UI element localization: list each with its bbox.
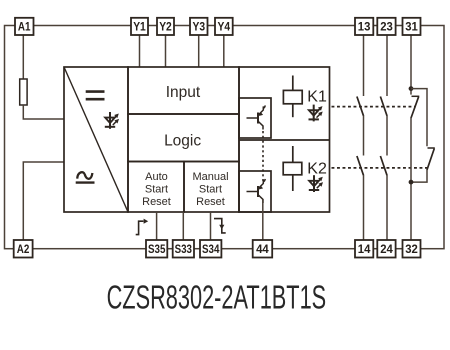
DC symbol (=) (86, 92, 105, 100)
terminal A2 (14, 240, 33, 258)
wire between contacts 13-14 (363, 116, 365, 156)
contact K1 NO (13-14) blade (357, 97, 364, 116)
LED power indicator (105, 112, 119, 129)
output block (239, 67, 330, 212)
power supply block (64, 67, 128, 212)
svg-text:S33: S33 (175, 244, 192, 256)
wire Y4 to Input (223, 35, 225, 67)
LED K1 indicator (309, 105, 323, 122)
svg-text:Input: Input (166, 84, 201, 101)
transistor Q1 box (239, 98, 271, 138)
svg-text:Reset: Reset (196, 196, 225, 208)
resistor R1 (20, 79, 27, 105)
svg-text:Auto: Auto (145, 171, 168, 183)
terminal 31 (403, 18, 421, 35)
svg-text:S35: S35 (148, 244, 166, 256)
relay coil K2 (283, 146, 302, 191)
input block (128, 67, 239, 114)
contact K2 NC (31-32) seat (428, 147, 435, 149)
reset arrow at S35 (136, 219, 149, 235)
terminal Y3 (190, 18, 208, 35)
terminal Y4 (215, 18, 233, 35)
contact K2 NO (13-14) blade (357, 156, 364, 175)
svg-text:31: 31 (405, 22, 418, 34)
linkage dotted K1 row (332, 106, 416, 108)
wire to 14 (363, 175, 365, 240)
AC symbol (~) (76, 172, 95, 182)
svg-text:Reset: Reset (142, 196, 171, 208)
wire 31 down (410, 35, 412, 95)
manual start reset block (184, 162, 239, 213)
svg-text:A1: A1 (18, 22, 31, 34)
wire outer bus loop (top bus y=25.5, right x=444, bottom bus y=248.7, left x=4.5) (5, 26, 445, 249)
terminal Y2 (157, 18, 174, 35)
wire Q2 to terminal 44 (262, 200, 264, 241)
transistor Q1 (247, 105, 266, 129)
terminal 24 (377, 240, 395, 258)
svg-text:Y1: Y1 (133, 22, 146, 34)
svg-text:24: 24 (380, 244, 393, 256)
linkage dotted Q1 to Q2 (262, 131, 264, 181)
svg-text:13: 13 (358, 22, 371, 34)
contact K1 NC (31-32) seat (412, 95, 420, 97)
wire K2 NC back to node (411, 170, 427, 183)
wire A2 to power supply (23, 162, 64, 240)
terminal 23 (377, 18, 395, 35)
node junction bottom (409, 180, 414, 185)
svg-text:K1: K1 (307, 88, 327, 105)
contact K1 NC (31-32) blade (411, 97, 419, 118)
wire jog to K2 NC (411, 89, 427, 147)
svg-text:Logic: Logic (164, 133, 201, 150)
svg-text:Y2: Y2 (159, 22, 172, 34)
terminal 13 (355, 18, 373, 35)
wire S33 up to block (182, 212, 184, 240)
wire A1 down to resistor (22, 35, 24, 79)
svg-text:Y4: Y4 (218, 22, 231, 34)
node junction top (409, 86, 414, 91)
linkage dotted K2 row (332, 167, 431, 169)
svg-text:Start: Start (145, 184, 168, 196)
wire resistor to power supply (23, 105, 64, 119)
LED K2 indicator (309, 175, 323, 192)
wire Y2 to Input (165, 35, 167, 67)
auto start reset block (128, 162, 184, 213)
svg-text:32: 32 (405, 244, 418, 256)
terminal S33 (173, 240, 194, 258)
wire between contacts 23-24 (386, 116, 388, 156)
wire Y1 to Input (139, 35, 141, 67)
reset arrow at S34 (214, 219, 226, 233)
svg-text:K2: K2 (307, 160, 327, 177)
svg-text:S34: S34 (202, 244, 220, 256)
svg-text:A2: A2 (17, 244, 30, 256)
svg-text:44: 44 (256, 244, 269, 256)
contact K2 NO (23-24) blade (380, 156, 387, 175)
terminal 44 (253, 240, 273, 258)
wire NC K1 to node bottom (410, 118, 412, 241)
svg-text:Start: Start (199, 184, 222, 196)
contact K1 NO (23-24) blade (380, 97, 387, 116)
K1/K2 section divider (239, 139, 330, 141)
terminal S35 (146, 240, 167, 258)
terminal S34 (200, 240, 221, 258)
terminal Y1 (131, 18, 148, 35)
svg-text:CZSR8302-2AT1BT1S: CZSR8302-2AT1BT1S (107, 280, 327, 317)
transistor Q2 box (239, 171, 271, 212)
terminal 14 (355, 240, 373, 258)
terminal A1 (15, 18, 34, 35)
wire Y3 to Input (198, 35, 200, 67)
svg-text:23: 23 (380, 22, 393, 34)
wire S35 up to block (156, 212, 158, 240)
relay coil K1 (283, 76, 302, 118)
wire to 24 (386, 175, 388, 240)
terminal 32 (403, 240, 421, 258)
contact K2 NC (31-32) blade (427, 149, 434, 170)
wire 23 down (386, 35, 388, 96)
logic block (128, 114, 239, 162)
wire 13 down (363, 35, 365, 96)
wire S34 up to block (210, 212, 212, 240)
svg-text:Manual: Manual (192, 171, 228, 183)
svg-text:14: 14 (358, 244, 371, 256)
svg-text:Y3: Y3 (193, 22, 206, 34)
transistor Q2 (247, 179, 266, 203)
